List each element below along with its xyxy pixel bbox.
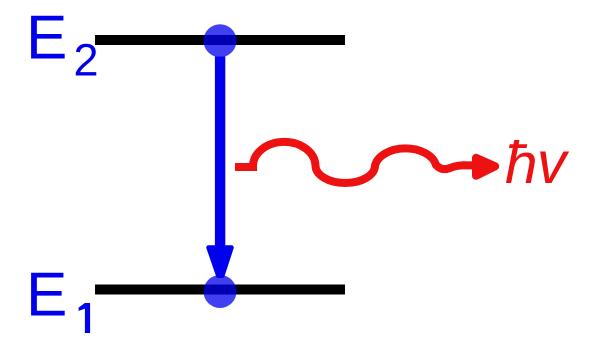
energy level line E2	[95, 35, 345, 45]
photon arrow head	[476, 158, 495, 176]
transition arrow head	[209, 248, 232, 276]
electron dot on E2	[204, 24, 237, 57]
svg-text:2: 2	[74, 35, 99, 86]
svg-text:E: E	[26, 4, 67, 73]
electron dot on E1	[204, 275, 237, 308]
svg-text:E: E	[26, 261, 67, 330]
photon wavy line	[235, 142, 473, 183]
svg-text:ħv: ħv	[505, 130, 570, 196]
transition arrow shaft	[215, 57, 225, 247]
energy level line E1	[95, 285, 345, 295]
